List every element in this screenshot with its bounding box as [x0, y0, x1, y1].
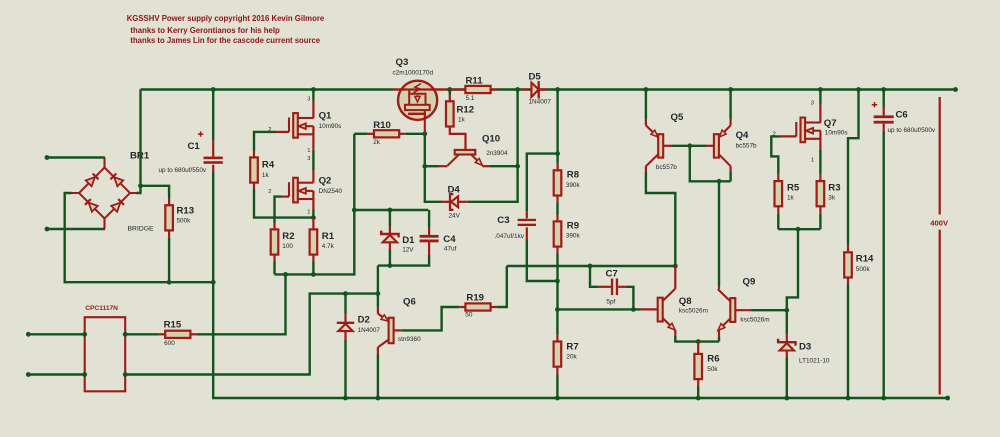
svg-text:R11: R11	[466, 76, 484, 87]
junction Q10 emitter node	[515, 164, 520, 169]
wire D1 bottom	[389, 249, 391, 266]
svg-text:Q2: Q2	[319, 176, 332, 187]
junction mirror to Q9	[717, 179, 722, 184]
svg-text:390k: 390k	[566, 182, 581, 189]
label R13	[177, 206, 195, 217]
svg-text:R19: R19	[466, 293, 484, 304]
wire Q4 base to node	[690, 145, 706, 147]
svg-text:C6: C6	[896, 109, 908, 120]
wire C6 bottom	[883, 131, 885, 398]
wire R12 top	[449, 90, 451, 95]
wire source-follower bottom net	[275, 134, 355, 275]
lead Q9 emitter	[718, 331, 720, 338]
svg-text:BRIDGE: BRIDGE	[128, 226, 155, 233]
label Q6	[403, 297, 416, 308]
label Q7	[824, 118, 837, 129]
label C4	[443, 234, 456, 245]
label D4 value	[449, 212, 461, 219]
wire C3 bottom	[527, 240, 558, 282]
label R10 value	[373, 139, 381, 146]
lead R4 bottom	[253, 183, 255, 190]
svg-text:Q4: Q4	[736, 130, 749, 141]
wire D3 top	[786, 310, 788, 334]
resistor R6	[694, 354, 702, 379]
svg-text:Q6: Q6	[403, 297, 416, 308]
label R2 value	[282, 243, 293, 250]
lead R14 bottom	[847, 278, 849, 285]
svg-text:ksc5026m: ksc5026m	[740, 317, 769, 324]
label C7 value	[606, 298, 615, 305]
wire R4 bottom to Q2 source node	[254, 190, 313, 218]
zener reference D3	[778, 339, 795, 351]
lead Q2 source	[312, 191, 314, 210]
lead Q4 collector	[729, 166, 731, 172]
svg-text:bc557b: bc557b	[736, 142, 757, 149]
svg-text:C4: C4	[443, 234, 456, 245]
lead D3 top	[786, 334, 788, 343]
label R5	[787, 183, 800, 194]
label R7 value	[566, 354, 577, 361]
lead D3 bottom	[786, 351, 788, 358]
wire Q1 drain from rail	[312, 90, 314, 101]
label R6 value	[707, 366, 718, 373]
junction R8 top	[555, 151, 560, 156]
label C4 value	[444, 246, 457, 253]
lead Q6 emitter bottom	[377, 347, 379, 354]
lead R15 right	[190, 333, 197, 335]
wire Q2 source down	[312, 210, 314, 218]
wire down to Q9 base node	[787, 229, 798, 310]
lead R19 right	[491, 306, 497, 308]
label BRIDGE	[128, 226, 155, 233]
lead Q1 gate	[276, 131, 289, 133]
lead R12 bottom elbow to Q10 base	[450, 127, 466, 150]
resistor R15	[165, 331, 190, 338]
label D4	[448, 185, 461, 196]
svg-text:Q9: Q9	[743, 277, 756, 288]
label D3	[799, 342, 811, 353]
lead C6 bottom	[883, 124, 885, 131]
svg-text:3: 3	[307, 96, 310, 102]
svg-text:12V: 12V	[402, 246, 414, 253]
lead D4 left	[442, 201, 451, 203]
wire Q6 emitter to bottom rail	[377, 355, 379, 399]
lead R10 left	[368, 133, 374, 135]
junction mirror base node	[687, 143, 692, 148]
lead C1 top	[212, 140, 214, 156]
transistor Q3 cascode mosfet	[394, 81, 447, 134]
label C3	[497, 215, 509, 226]
label Q2	[319, 176, 332, 187]
svg-text:10m90s: 10m90s	[825, 129, 848, 136]
svg-text:LT1021-10: LT1021-10	[799, 358, 830, 365]
wire Q8 base net	[557, 308, 640, 310]
junction dots on bottom rail	[343, 396, 950, 401]
wire branch to R13	[141, 186, 170, 199]
label R11	[466, 76, 484, 87]
label R9	[567, 221, 579, 232]
label D2 value	[358, 327, 381, 334]
svg-text:3: 3	[307, 156, 310, 162]
label BR1	[130, 151, 150, 162]
label Q10 value	[486, 150, 508, 157]
svg-text:up to 680uf/500v: up to 680uf/500v	[888, 127, 936, 134]
transistor Q5	[646, 125, 663, 166]
label D5	[529, 72, 542, 83]
resistor R1	[310, 229, 318, 254]
wire Q9 collector to mirror	[718, 181, 720, 286]
svg-text:R7: R7	[566, 342, 578, 353]
label Q4	[736, 130, 749, 141]
title line 3	[130, 35, 320, 45]
junction Q6 base / D2 net	[376, 291, 381, 296]
svg-text:CPC1117N: CPC1117N	[85, 305, 118, 312]
lead D1 bottom	[389, 243, 391, 249]
wire D2 top	[344, 294, 346, 314]
svg-text:50: 50	[465, 311, 473, 318]
junction Q10 collector node	[422, 164, 427, 169]
lead Q1 drain	[312, 101, 314, 119]
lead R6 bottom	[697, 379, 699, 386]
junction dots on opto pins	[82, 332, 127, 377]
svg-text:R6: R6	[707, 354, 719, 365]
junction C3 bottom	[555, 279, 560, 284]
lead Q5 base	[663, 145, 672, 147]
svg-text:Q3: Q3	[396, 57, 409, 68]
svg-text:1k: 1k	[787, 195, 795, 202]
svg-text:5pf: 5pf	[606, 298, 615, 305]
label D2	[358, 315, 370, 326]
lead Q7 source	[819, 131, 821, 150]
wire Q4 collector down	[729, 172, 731, 181]
pin 3 Q2	[307, 156, 310, 162]
label 400V	[930, 219, 949, 228]
wire mirror base down	[690, 146, 731, 182]
transistor Q7	[796, 118, 820, 143]
lead R13 top	[168, 198, 170, 205]
lead D5 left	[521, 88, 529, 90]
lead Q2 gate	[281, 196, 289, 198]
svg-text:D1: D1	[402, 235, 415, 246]
resistor R8	[554, 170, 562, 195]
transistor Q6	[378, 314, 394, 348]
label Q9	[743, 277, 756, 288]
svg-text:1: 1	[307, 148, 310, 154]
node AC input upper	[45, 155, 50, 160]
wire R10 right	[406, 133, 425, 135]
lead Q10 emitter	[482, 165, 490, 167]
pin 1 Q2	[307, 209, 310, 215]
bridge rectifier BR1	[72, 158, 137, 230]
capacitor C3	[518, 219, 536, 226]
lead R9 top	[556, 215, 558, 222]
label R14	[856, 254, 874, 265]
junction dots minus node	[167, 280, 216, 285]
lead R3 top	[819, 174, 821, 181]
svg-text:R2: R2	[282, 231, 294, 242]
lead Q6 collector	[394, 329, 402, 331]
wire top rail right segment	[446, 88, 955, 90]
lead Q7 drain	[819, 105, 821, 123]
label Q8 value	[679, 308, 708, 315]
lead R8 bottom	[556, 196, 558, 203]
label R3	[828, 183, 840, 194]
wire Q5 emitter from rail	[645, 90, 647, 120]
label R8 value	[566, 182, 581, 189]
svg-text:2n3904: 2n3904	[486, 150, 508, 157]
pin 3 Q7	[811, 100, 814, 106]
wire opto to R15	[125, 333, 158, 335]
svg-text:500k: 500k	[856, 266, 871, 273]
wire R8-R9	[556, 202, 558, 214]
lead R2 bottom	[273, 255, 275, 262]
lead R7 top	[556, 335, 558, 342]
svg-text:DN2540: DN2540	[319, 188, 343, 195]
label D1 value	[402, 246, 414, 253]
svg-text:ksc5026m: ksc5026m	[679, 308, 708, 315]
wire R10 left	[354, 133, 367, 135]
lead R1 top	[312, 218, 314, 230]
wire Q1 source to Q2 drain	[312, 151, 314, 171]
junction D1 bottom	[388, 263, 393, 268]
junction dots bottom net	[283, 272, 316, 277]
wire bottom rail	[213, 282, 947, 398]
junction Q3 source node	[422, 131, 427, 136]
resistor R11	[465, 86, 490, 93]
label Q10	[482, 134, 500, 145]
wire D4 left riser	[425, 166, 442, 202]
label R12	[457, 105, 475, 116]
lead C4 top	[428, 227, 430, 235]
wire Q9 emitter	[718, 337, 720, 342]
wire C7 left	[590, 266, 599, 287]
wire VAS net	[507, 265, 676, 267]
C6 polarity plus	[872, 102, 877, 107]
svg-text:R10: R10	[373, 120, 391, 131]
svg-text:Q8: Q8	[679, 296, 692, 307]
svg-text:KGSSHV Power supply copyright: KGSSHV Power supply copyright 2016 Kevin…	[127, 13, 325, 23]
label R10	[373, 120, 391, 131]
lead R15 left	[159, 333, 166, 335]
svg-text:100: 100	[282, 243, 293, 250]
svg-text:Q10: Q10	[482, 134, 500, 145]
lead R5 bottom	[777, 206, 779, 214]
lead Q4 emitter	[729, 119, 731, 125]
voltage annotation 400V line	[939, 97, 941, 395]
wire C1 top	[212, 90, 214, 141]
label Q5	[671, 112, 684, 123]
resistor R10	[374, 130, 399, 137]
node AC input lower	[45, 227, 50, 232]
wire R3 bottom	[819, 214, 821, 229]
wire down to R7	[556, 309, 558, 334]
wire rail to Q10 emitter node	[516, 90, 518, 167]
wire top rail left segment	[141, 88, 394, 90]
title line 2	[130, 25, 279, 35]
wire C4 top	[428, 210, 430, 227]
wire D4 right riser	[468, 166, 518, 202]
wire Q7 drain from rail	[819, 90, 821, 105]
svg-text:10m90s: 10m90s	[319, 123, 342, 130]
optocoupler U1 CPC1117N box	[85, 317, 126, 391]
label Q8	[679, 296, 692, 307]
lead D2 bottom	[344, 331, 346, 340]
junction C7 right	[631, 307, 636, 312]
svg-text:4.7k: 4.7k	[322, 243, 335, 250]
lead Q9 base	[735, 309, 751, 311]
capacitor C7	[611, 279, 618, 296]
lead C3 bottom	[526, 227, 528, 239]
wire R6 bottom	[697, 387, 699, 399]
svg-text:1k: 1k	[262, 172, 270, 179]
lead R7 bottom	[556, 368, 558, 375]
label R12 value	[458, 116, 466, 123]
wire C7 right	[627, 287, 633, 310]
pin 2 Q2	[268, 189, 271, 195]
wire R14 bottom	[847, 284, 849, 398]
svg-text:C7: C7	[606, 269, 618, 280]
pin 2 Q1	[268, 127, 271, 133]
label R6	[707, 354, 719, 365]
wire Q9 base net	[752, 309, 787, 311]
label R4	[262, 160, 275, 171]
lead D4 right	[458, 201, 468, 203]
junction Q9 base node	[784, 308, 789, 313]
wire R7 bottom	[556, 375, 558, 399]
node opto in lower	[26, 372, 31, 377]
wire R8 top from rail	[556, 90, 558, 154]
junction dots VAS net	[588, 264, 678, 269]
svg-text:C3: C3	[497, 215, 509, 226]
pin 3 Q1	[307, 96, 310, 102]
resistor R3	[817, 181, 825, 206]
svg-text:R13: R13	[177, 206, 195, 217]
svg-text:3k: 3k	[828, 195, 836, 202]
svg-text:400V: 400V	[930, 219, 949, 228]
label R19 value	[465, 311, 473, 318]
wire R5 bottom	[777, 214, 779, 229]
label C3 value	[495, 233, 525, 240]
junction bridge column	[138, 183, 143, 188]
svg-text:R15: R15	[164, 320, 182, 331]
label C1 value	[159, 167, 207, 174]
lead R11 left	[450, 88, 466, 90]
label R14 value	[856, 266, 871, 273]
wire C6 top	[883, 90, 885, 108]
transistor Q8	[658, 289, 675, 330]
lead Q10 collector	[439, 165, 448, 167]
svg-text:thanks to James Lin for the ca: thanks to James Lin for the cascode curr…	[130, 35, 320, 45]
svg-text:3: 3	[811, 100, 814, 106]
wire Q3 source down	[424, 134, 426, 166]
wire Q6 collector to R19	[401, 307, 459, 330]
lead Q6 base	[377, 307, 379, 314]
lead R13 bottom	[168, 230, 170, 237]
wire Q7 source to R3	[819, 150, 821, 174]
label R15	[164, 320, 182, 331]
lead R6 top	[697, 342, 699, 354]
lead C6 top	[883, 108, 885, 116]
wire opto lower to Q6 base net	[125, 294, 378, 375]
wire R13 bottom	[168, 237, 170, 282]
label R13 value	[177, 218, 192, 225]
wire Q10 emitter net	[490, 165, 518, 167]
lead Q4 base	[706, 145, 714, 147]
wire C1 bottom	[212, 172, 214, 283]
label C7	[606, 269, 618, 280]
lead Q1 source	[312, 126, 314, 150]
resistor R7	[554, 342, 562, 367]
junction R5 R3 node	[796, 227, 801, 232]
svg-text:500k: 500k	[177, 218, 192, 225]
label R1	[322, 231, 335, 242]
label C1	[188, 141, 201, 152]
svg-text:R5: R5	[787, 183, 800, 194]
label Q1 value	[319, 123, 342, 130]
capacitor C4	[420, 235, 439, 242]
junction Q8 base node	[555, 307, 560, 312]
svg-text:1: 1	[811, 157, 814, 163]
lead Q9 collector	[718, 286, 720, 289]
lead R12 top	[449, 95, 451, 102]
svg-text:2: 2	[268, 189, 271, 195]
svg-text:50k: 50k	[707, 366, 718, 373]
svg-text:1N4007: 1N4007	[358, 327, 381, 334]
lead R1 bottom	[312, 255, 314, 262]
label Q6 value	[398, 336, 421, 343]
label Q5 value	[656, 164, 677, 171]
label Q3	[396, 57, 409, 68]
wire Q5 collector down	[646, 172, 675, 266]
wire AC upper to bridge	[47, 156, 105, 158]
label C6	[896, 109, 908, 120]
resistor R14	[844, 252, 852, 277]
lead Q8 emitter	[674, 330, 676, 336]
wire R1 bottom	[312, 262, 314, 275]
label R8	[567, 170, 580, 181]
junction R6 top	[696, 339, 701, 344]
label R1 value	[322, 243, 335, 250]
svg-text:bc557b: bc557b	[656, 164, 677, 171]
wire Q1 gate to R4	[254, 132, 276, 151]
svg-text:up to 680uf/550v: up to 680uf/550v	[159, 167, 207, 174]
capacitor C1	[204, 157, 223, 164]
wire R9 bottom	[556, 254, 558, 310]
svg-text:C1: C1	[188, 141, 201, 152]
wire Q5 base to node	[672, 145, 690, 147]
junction Q2 source node	[311, 215, 316, 220]
diode D5	[531, 81, 538, 98]
label R11 value	[466, 95, 475, 102]
wire R2 bottom	[273, 262, 275, 275]
svg-text:D2: D2	[358, 315, 370, 326]
transistor Q10	[447, 150, 482, 166]
resistor R4	[250, 157, 258, 182]
wire R14 top	[848, 90, 859, 246]
wire top rail through Q3	[394, 88, 447, 90]
label Q3 value	[393, 70, 434, 77]
svg-text:600: 600	[164, 340, 175, 347]
lead D2 top	[344, 314, 346, 323]
wire opto in upper	[28, 333, 84, 335]
junction D1 net branch	[352, 208, 357, 213]
label R7	[566, 342, 578, 353]
resistor R13	[165, 205, 173, 230]
svg-text:thanks to Kerry Gerontianos fo: thanks to Kerry Gerontianos for his help	[130, 25, 279, 35]
lead R10 right	[399, 133, 405, 135]
zener diode D1	[381, 231, 398, 243]
wire Q4 emitter from rail	[729, 90, 731, 120]
